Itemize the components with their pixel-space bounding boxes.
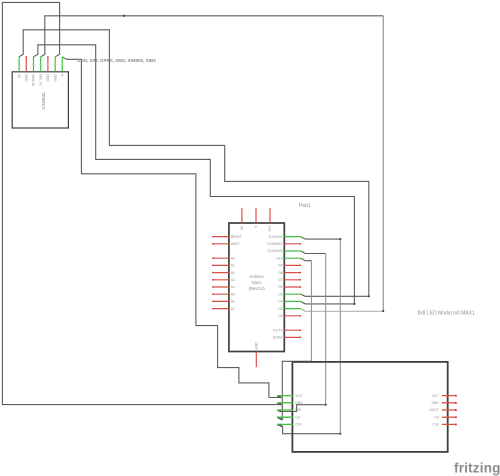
svg-text:D11/MOSI: D11/MOSI — [267, 249, 282, 253]
svg-text:A3: A3 — [231, 278, 235, 282]
svg-text:GND: GND — [46, 74, 50, 82]
wire W5: GSM pin7 to LED VCC — [62, 57, 281, 398]
wire W4: GSM pin3 RXD to Arduino D4 — [34, 45, 355, 304]
svg-text:5V RXD: 5V RXD — [32, 74, 36, 87]
svg-text:A7: A7 — [231, 307, 235, 311]
svg-text:A5: A5 — [231, 292, 235, 296]
LED right pin labels — [429, 394, 439, 427]
svg-text:A4: A4 — [231, 285, 235, 289]
wire D11/MOSI to LED DIN — [301, 251, 326, 254]
Arduino Nano U2 — [229, 223, 284, 352]
LED left pin CS (connected) — [277, 416, 293, 418]
wire D10 to LED CS — [301, 258, 312, 261]
svg-text:GND: GND — [295, 401, 303, 405]
svg-text:D8: D8 — [278, 271, 282, 275]
svg-text:GSM, SIM, GPRS, SMS, SIM900, S: GSM, SIM, GPRS, SMS, SIM900, SIM1 — [77, 58, 157, 63]
svg-text:RESET: RESET — [231, 235, 242, 239]
svg-text:D5: D5 — [278, 292, 282, 296]
wire W2 return segment to D3 (light) — [301, 309, 383, 312]
wire W1: GSM pin6 GND to LED GND via left border — [2, 2, 281, 404]
nano right unconnected pin terminal dots — [300, 243, 302, 338]
GSM pin 6 (GND, connected) — [54, 57, 56, 72]
LED left pin VCC (connected) — [277, 395, 293, 397]
GSM pin 7 (connected) — [61, 57, 63, 72]
svg-text:AREF: AREF — [231, 242, 240, 246]
bendpoint dot on wire W2 — [123, 15, 125, 17]
svg-text:VCC: VCC — [295, 394, 303, 398]
GSM pin 3 (RXD, connected) — [33, 57, 35, 72]
svg-text:GND: GND — [53, 74, 57, 82]
nano top pin labels — [240, 225, 272, 232]
nano top pin VIN — [255, 208, 257, 223]
GSM pin terminal ticks — [18, 64, 64, 66]
LED left pin CLK (connected) — [277, 423, 293, 425]
GSM pin 2 (GND, unconnected) — [25, 57, 27, 72]
svg-text:CS: CS — [434, 415, 439, 419]
nano left pin terminal dots — [212, 236, 214, 309]
svg-text:CS: CS — [295, 415, 300, 419]
wire W2: GSM pin4 TXD to Arduino D3 — [41, 16, 384, 57]
LED left pin labels — [295, 394, 303, 427]
svg-text:fritzing: fritzing — [454, 460, 500, 475]
LED left pin GND (connected) — [277, 402, 293, 404]
svg-text:A6: A6 — [231, 300, 235, 304]
nano top pin 5V — [241, 208, 243, 223]
GSM pin 5 (unconnected) — [47, 57, 49, 72]
svg-text:Part1: Part1 — [299, 203, 311, 209]
svg-text:A0: A0 — [231, 256, 235, 260]
GSM module U1 (SIM800L) — [12, 72, 68, 128]
svg-text:3V TXD: 3V TXD — [39, 74, 43, 86]
wire W3: GSM pin1 to Arduino D5 — [19, 30, 369, 297]
GSM pin labels — [17, 73, 64, 86]
svg-text:D7: D7 — [278, 278, 282, 282]
svg-text:CLK: CLK — [432, 423, 439, 427]
svg-text:DOUT: DOUT — [429, 408, 438, 412]
svg-text:GND: GND — [25, 74, 29, 82]
svg-text:Arduino: Arduino — [249, 274, 264, 279]
svg-text:D0/RX: D0/RX — [273, 336, 284, 340]
nano top pin 3V3 — [269, 208, 271, 223]
svg-text:D1/TX: D1/TX — [273, 328, 283, 332]
svg-text:SIM800L: SIM800L — [41, 91, 46, 110]
svg-text:GND: GND — [431, 401, 439, 405]
nano right pins — [284, 236, 301, 238]
svg-text:A1: A1 — [231, 264, 235, 268]
svg-text:D2: D2 — [278, 314, 282, 318]
svg-text:8x8 LED Modul mit MAX1: 8x8 LED Modul mit MAX1 — [418, 310, 475, 316]
svg-text:D13/SCK: D13/SCK — [269, 235, 284, 239]
svg-text:GND: GND — [255, 342, 259, 350]
svg-text:D6: D6 — [278, 285, 282, 289]
svg-text:3V3: 3V3 — [268, 225, 272, 231]
svg-text:D4: D4 — [278, 300, 282, 304]
GSM unconnected pin terminal dots — [26, 56, 28, 58]
svg-text:A2: A2 — [231, 271, 235, 275]
svg-text:D9: D9 — [278, 264, 282, 268]
LED pin connection diagonals (emphasis) — [277, 396, 282, 427]
nano left pin labels — [231, 235, 242, 311]
svg-text:D12/MISO: D12/MISO — [267, 242, 283, 246]
svg-text:CLK: CLK — [295, 423, 302, 427]
nano bottom pin GND — [255, 352, 257, 368]
LED right pin terminal dots — [455, 395, 457, 426]
LED right pins (unconnected red) — [442, 396, 456, 425]
svg-text:D3: D3 — [278, 307, 282, 311]
LED left pin DIN (connected) — [277, 409, 293, 411]
svg-text:(Rev3.0): (Rev3.0) — [249, 286, 266, 291]
GSM pin 1 (5V, connected) — [18, 57, 20, 72]
svg-text:VCC: VCC — [432, 394, 440, 398]
wire D13/SCK to LED CLK — [301, 237, 341, 240]
svg-text:Nano: Nano — [252, 280, 263, 285]
nano right pin labels — [267, 235, 283, 340]
svg-text:D10: D10 — [277, 256, 283, 260]
nano left pins (all unconnected red) — [213, 237, 229, 309]
svg-text:DIN: DIN — [295, 408, 301, 412]
GSM pin 4 (TXD, connected) — [40, 57, 42, 72]
LED matrix module U3 (8x8 LED Modul mit MAX1) — [292, 362, 447, 452]
